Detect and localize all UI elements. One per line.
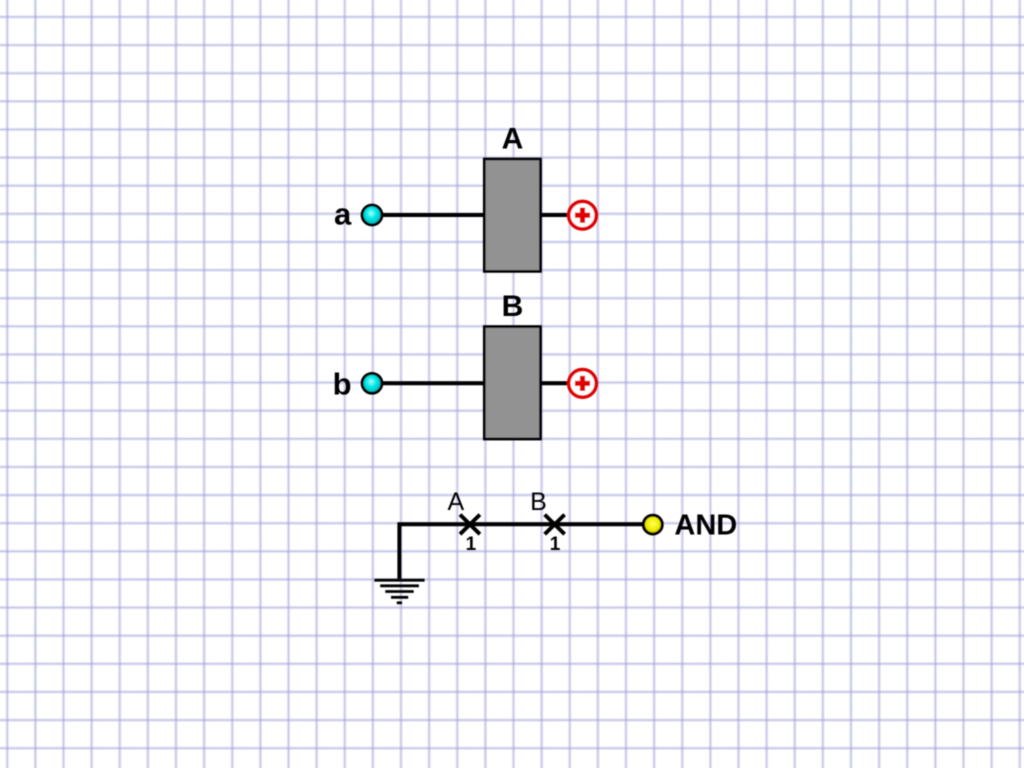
input terminal a [362, 205, 382, 225]
svg-text:a: a [334, 196, 352, 231]
svg-text:b: b [333, 366, 352, 401]
wire ground to lamp [399, 524, 642, 579]
wire a to coil A [372, 213, 486, 217]
svg-text:1: 1 [550, 534, 561, 555]
output lamp AND [643, 515, 662, 534]
svg-text:1: 1 [466, 534, 477, 555]
svg-text:AND: AND [674, 509, 737, 541]
svg-text:B: B [502, 290, 524, 323]
relay coil A [484, 159, 540, 271]
svg-text:A: A [502, 123, 524, 156]
positive supply terminal B [569, 370, 597, 398]
wire b to coil B [372, 381, 486, 385]
positive supply terminal A [569, 201, 597, 229]
relay coil B [484, 327, 540, 439]
ground [374, 580, 424, 603]
input terminal b [362, 373, 382, 393]
wire coil B to supply [539, 381, 567, 385]
svg-text:A: A [448, 488, 465, 516]
wire coil A to supply [539, 213, 567, 217]
svg-text:B: B [530, 488, 547, 516]
contact A (normally-open) [460, 515, 480, 535]
contact B (normally-open) [545, 515, 565, 535]
